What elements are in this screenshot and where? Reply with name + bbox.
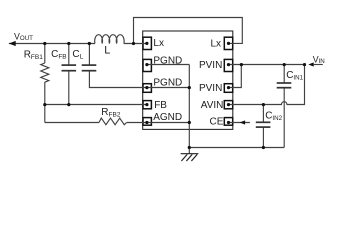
svg-text:CIN2: CIN2: [265, 111, 282, 123]
svg-text:PVIN: PVIN: [199, 60, 222, 71]
svg-text:VIN: VIN: [313, 55, 325, 65]
svg-text:VOUT: VOUT: [14, 31, 33, 41]
svg-text:Lx: Lx: [153, 38, 164, 49]
svg-text:L: L: [104, 45, 110, 57]
svg-text:AGND: AGND: [153, 112, 182, 123]
svg-text:PGND: PGND: [153, 78, 182, 89]
svg-text:CIN1: CIN1: [286, 70, 303, 82]
svg-text:CE: CE: [209, 117, 223, 128]
svg-text:CFB: CFB: [51, 49, 67, 61]
svg-text:PVIN: PVIN: [199, 83, 222, 94]
svg-text:CL: CL: [72, 49, 83, 61]
svg-text:AVIN: AVIN: [201, 100, 224, 111]
svg-text:Lx: Lx: [210, 38, 221, 49]
svg-text:PGND: PGND: [153, 56, 182, 67]
svg-text:RFB1: RFB1: [24, 49, 44, 61]
svg-text:RFB2: RFB2: [101, 107, 121, 119]
svg-text:FB: FB: [154, 100, 167, 111]
